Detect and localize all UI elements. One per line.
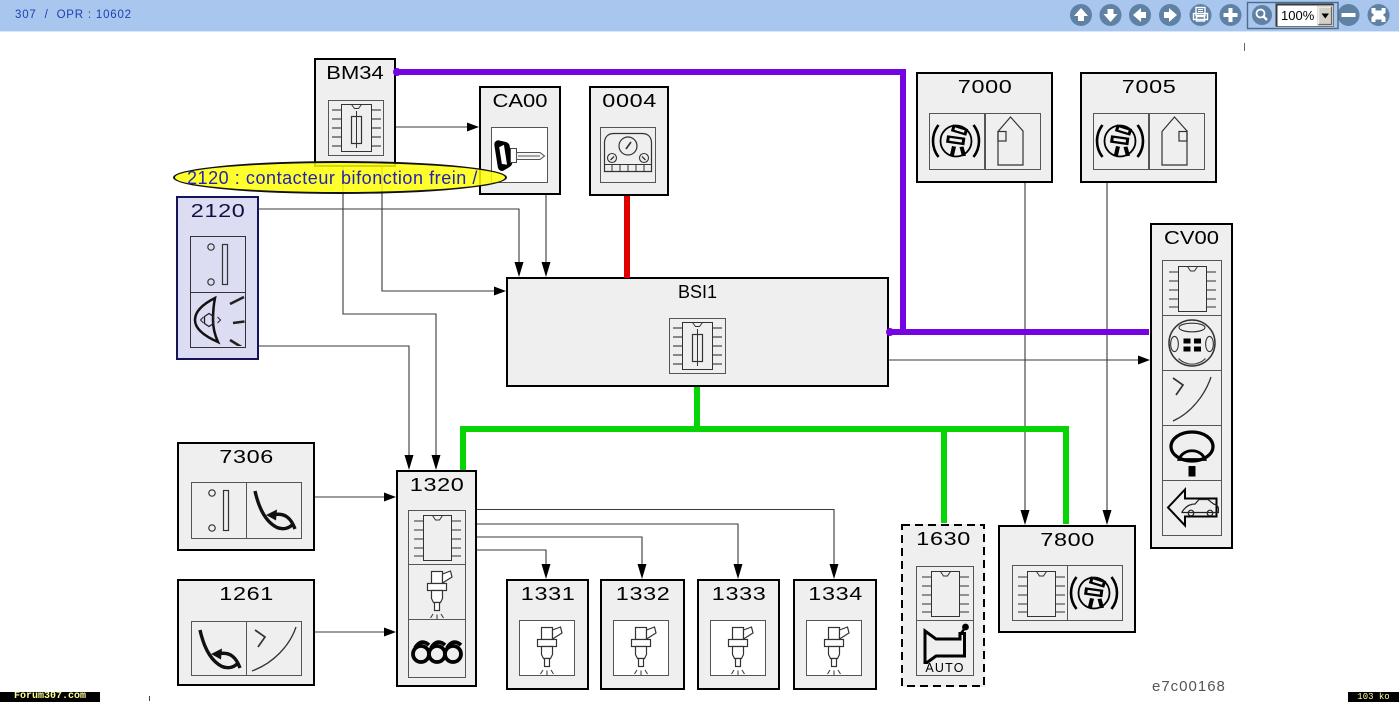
svg-text:100%: 100%	[1281, 8, 1315, 23]
